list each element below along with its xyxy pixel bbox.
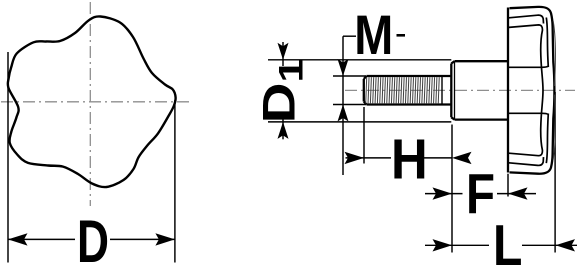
svg-text:H: H <box>391 127 428 190</box>
svg-text:M: M <box>354 4 393 66</box>
svg-text:F: F <box>466 162 495 225</box>
svg-text:D: D <box>77 208 109 269</box>
svg-text:L: L <box>493 214 522 269</box>
